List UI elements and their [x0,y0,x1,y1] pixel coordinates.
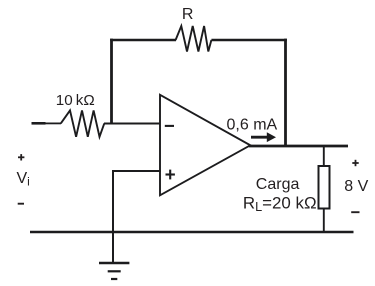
svg-text:RL=20 kΩ: RL=20 kΩ [243,194,317,215]
op-amp minus sign [165,125,174,127]
wire feedback top rail left segment [110,39,176,42]
source plus sign Vi [18,154,24,160]
wire feedback top rail right segment [211,39,287,42]
wire input stub to 10k resistor [32,122,46,125]
wire 10k to op-amp inverting input [104,123,161,125]
output plus sign 8V [352,160,358,166]
output minus sign 8V [351,211,359,213]
current arrow [251,132,276,142]
wire load bottom [323,209,325,233]
resistor R zigzag [176,26,212,52]
resistor 10k zigzag [61,110,105,136]
wire output line [249,145,348,148]
svg-text:0,6 mA: 0,6 mA [227,117,278,134]
svg-text:8 V: 8 V [344,178,368,195]
svg-text:Vi: Vi [17,170,30,189]
wire non-inverting input vertical to ground rail [112,171,114,232]
source minus sign Vi [18,203,24,205]
wire load top [323,146,325,167]
wire feedback left vertical [110,39,113,124]
svg-text:10 kΩ: 10 kΩ [56,92,95,109]
op-amp U1 triangle [160,95,250,196]
svg-text:Carga: Carga [256,176,300,193]
op-amp plus sign [166,170,175,180]
wire stub thin part [46,122,62,124]
ground symbol [99,232,129,279]
wire non-inverting input horizontal [112,170,161,172]
svg-text:R: R [182,6,194,23]
load resistor RL rectangle [319,166,330,209]
wire bottom ground rail [30,231,354,233]
wire feedback right vertical [284,39,287,147]
